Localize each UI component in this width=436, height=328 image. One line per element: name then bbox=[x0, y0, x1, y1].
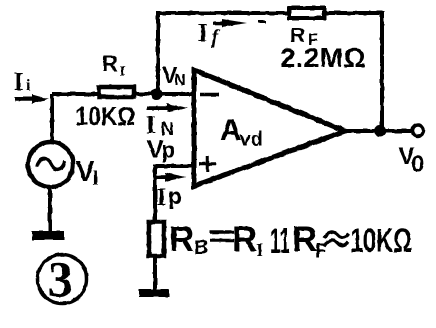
svg-text:10KΩ: 10KΩ bbox=[350, 222, 412, 260]
svg-text:i: i bbox=[26, 77, 31, 94]
svg-text:R: R bbox=[292, 220, 317, 259]
svg-text:I: I bbox=[256, 240, 263, 261]
svg-text:R: R bbox=[232, 220, 257, 259]
svg-text:vd: vd bbox=[240, 129, 263, 151]
svg-text:B: B bbox=[194, 237, 208, 259]
svg-text:R: R bbox=[102, 51, 118, 76]
svg-text:p: p bbox=[162, 138, 175, 163]
svg-text:I: I bbox=[198, 20, 208, 47]
svg-text:R: R bbox=[169, 220, 194, 259]
svg-text:10KΩ: 10KΩ bbox=[76, 101, 136, 131]
svg-text:11: 11 bbox=[270, 222, 290, 261]
svg-text:A: A bbox=[220, 114, 242, 147]
svg-text:I: I bbox=[14, 67, 24, 96]
svg-text:I: I bbox=[157, 184, 167, 211]
svg-text:3: 3 bbox=[48, 251, 73, 307]
svg-text:I: I bbox=[120, 64, 126, 80]
svg-text:0: 0 bbox=[411, 151, 424, 178]
svg-text:2.2MΩ: 2.2MΩ bbox=[280, 43, 366, 73]
svg-text:p: p bbox=[168, 183, 182, 209]
svg-text:l: l bbox=[93, 166, 99, 190]
svg-text:N: N bbox=[175, 72, 186, 89]
